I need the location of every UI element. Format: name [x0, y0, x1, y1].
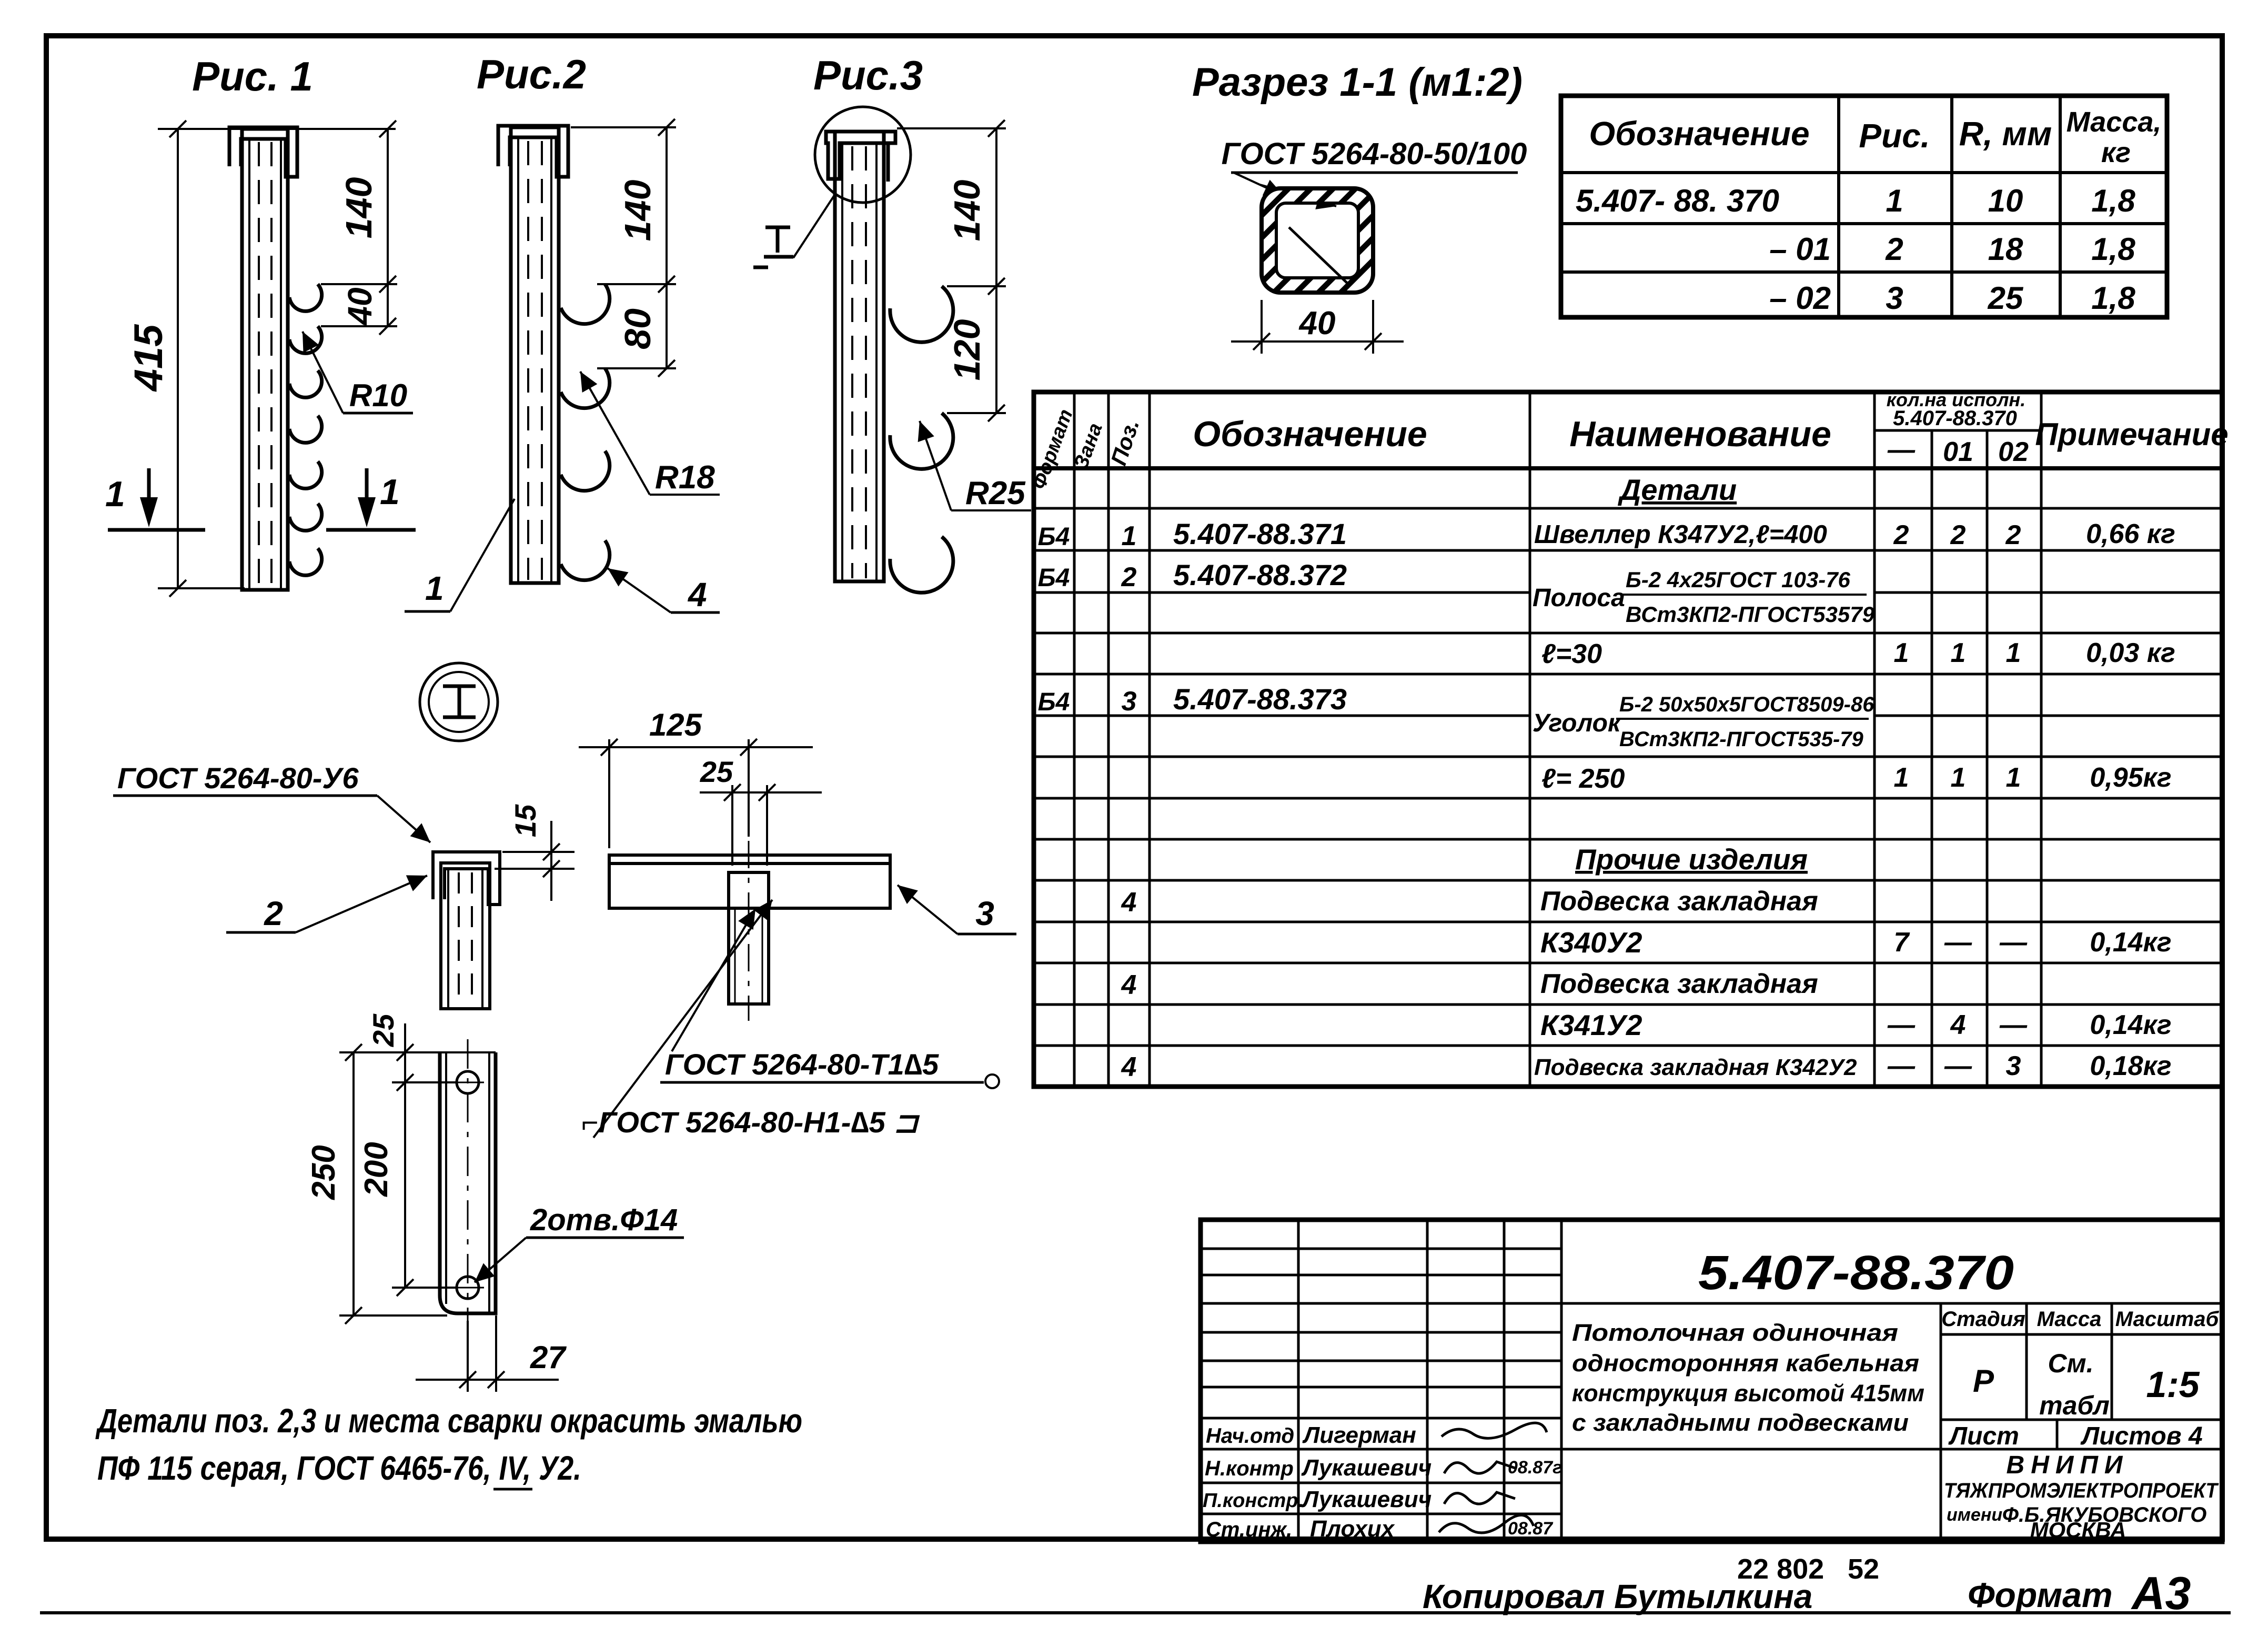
svg-text:Примечание: Примечание [2035, 417, 2228, 452]
svg-text:2: 2 [1893, 520, 1909, 550]
svg-text:Обозначение: Обозначение [1589, 115, 1809, 153]
svg-text:5.407-88.372: 5.407-88.372 [1173, 558, 1347, 591]
svg-text:Потолочная одиночная: Потолочная одиночная [1572, 1319, 1898, 1346]
svg-text:Лукашевич: Лукашевич [1301, 1487, 1432, 1512]
svg-text:Прочие изделия: Прочие изделия [1575, 843, 1808, 876]
svg-text:1: 1 [1886, 183, 1903, 218]
svg-text:Р: Р [1973, 1363, 1994, 1399]
svg-text:01: 01 [1943, 437, 1973, 467]
svg-text:ВНИПИ: ВНИПИ [2007, 1451, 2129, 1479]
svg-text:Масса: Масса [2037, 1308, 2102, 1331]
svg-text:Обозначение: Обозначение [1193, 414, 1427, 454]
svg-text:2: 2 [2005, 520, 2021, 550]
svg-text:27: 27 [530, 1340, 567, 1375]
svg-text:1: 1 [1951, 762, 1966, 793]
svg-text:Б4: Б4 [1038, 688, 1070, 716]
svg-text:Масса,: Масса, [2067, 106, 2162, 138]
svg-text:ГОСТ 5264-80-50/100: ГОСТ 5264-80-50/100 [1222, 137, 1527, 171]
svg-text:Рис. 1: Рис. 1 [192, 53, 313, 99]
svg-text:1,8: 1,8 [2091, 232, 2135, 267]
svg-text:R18: R18 [655, 459, 715, 496]
svg-text:Стадия: Стадия [1941, 1308, 2025, 1331]
svg-text:3: 3 [2006, 1051, 2021, 1081]
svg-text:1:5: 1:5 [2146, 1364, 2200, 1405]
svg-text:Рис.: Рис. [1859, 117, 1930, 155]
svg-text:Ст.инж.: Ст.инж. [1206, 1518, 1292, 1541]
svg-text:415: 415 [126, 324, 171, 393]
svg-text:Н.контр: Н.контр [1205, 1457, 1294, 1480]
svg-text:1: 1 [425, 569, 444, 607]
svg-text:1: 1 [380, 472, 400, 512]
svg-text:—: — [1944, 1051, 1972, 1081]
svg-text:3: 3 [1122, 686, 1137, 717]
svg-text:40: 40 [1298, 305, 1336, 342]
svg-text:односторонняя кабельная: односторонняя кабельная [1572, 1350, 1919, 1377]
svg-text:—: — [1887, 435, 1916, 465]
svg-text:Рис.2: Рис.2 [477, 51, 586, 97]
svg-text:—: — [1887, 1051, 1916, 1081]
svg-text:1: 1 [2006, 762, 2021, 793]
svg-text:0,66 кг: 0,66 кг [2086, 519, 2175, 549]
svg-text:ВСт3КП2-ПГОСТ53579: ВСт3КП2-ПГОСТ53579 [1626, 602, 1875, 627]
svg-text:К341У2: К341У2 [1540, 1009, 1642, 1041]
svg-text:120: 120 [946, 319, 987, 381]
svg-text:имени: имени [1947, 1505, 2002, 1525]
svg-text:R10: R10 [349, 378, 407, 413]
svg-text:Детали поз. 2,3 и места с: Детали поз. 2,3 и места сварки окрасить … [95, 1402, 802, 1440]
svg-text:125: 125 [649, 707, 703, 742]
svg-text:Лигерман: Лигерман [1302, 1422, 1416, 1448]
svg-text:1: 1 [1894, 638, 1909, 668]
svg-text:МОСКВА: МОСКВА [2030, 1518, 2126, 1542]
svg-text:200: 200 [358, 1142, 395, 1197]
svg-text:1: 1 [1894, 762, 1909, 793]
svg-text:См.: См. [2048, 1349, 2094, 1378]
svg-text:Б4: Б4 [1038, 564, 1070, 592]
svg-text:2: 2 [1950, 520, 1966, 550]
svg-text:табл: табл [2039, 1391, 2110, 1420]
svg-text:1: 1 [1122, 521, 1137, 551]
svg-text:4: 4 [1950, 1010, 1966, 1040]
svg-text:Поз.: Поз. [1106, 416, 1144, 468]
svg-text:1: 1 [2006, 638, 2021, 668]
svg-text:4: 4 [687, 576, 707, 614]
svg-text:Лист: Лист [1948, 1422, 2019, 1450]
svg-text:1,8: 1,8 [2091, 183, 2135, 218]
svg-text:2отв.Ф14: 2отв.Ф14 [530, 1203, 678, 1237]
svg-text:3: 3 [975, 895, 994, 932]
svg-text:Нач.отд: Нач.отд [1206, 1424, 1294, 1448]
svg-text:5.407- 88. 370: 5.407- 88. 370 [1576, 183, 1779, 218]
svg-text:08.87: 08.87 [1508, 1519, 1554, 1539]
svg-text:К340У2: К340У2 [1540, 926, 1642, 959]
svg-text:52: 52 [1848, 1553, 1879, 1585]
svg-text:А3: А3 [2131, 1567, 2191, 1619]
svg-text:Плохих: Плохих [1310, 1516, 1395, 1542]
svg-text:Подвеска закладная: Подвеска закладная [1540, 886, 1818, 917]
svg-text:18: 18 [1988, 232, 2023, 267]
svg-text:—: — [1999, 927, 2028, 958]
svg-text:Рис.3: Рис.3 [813, 52, 923, 98]
svg-text:Разрез 1-1 (м1:2): Разрез 1-1 (м1:2) [1192, 60, 1523, 105]
svg-text:0,14кг: 0,14кг [2090, 927, 2171, 958]
svg-text:40: 40 [341, 287, 379, 326]
svg-text:80: 80 [617, 308, 658, 349]
svg-text:5.407-88.370: 5.407-88.370 [1893, 407, 2017, 430]
svg-text:02: 02 [1998, 437, 2029, 467]
svg-text:Уголок: Уголок [1533, 709, 1622, 737]
svg-text:—: — [1944, 927, 1972, 958]
svg-text:—: — [1887, 1010, 1916, 1040]
svg-text:Формат: Формат [1968, 1575, 2113, 1614]
svg-text:15: 15 [509, 804, 542, 837]
svg-text:140: 140 [338, 177, 379, 239]
svg-text:0,03 кг: 0,03 кг [2086, 638, 2175, 668]
svg-text:4: 4 [1121, 970, 1137, 1000]
svg-text:5.407-88.373: 5.407-88.373 [1173, 682, 1347, 716]
svg-text:1: 1 [1951, 638, 1966, 668]
svg-text:140: 140 [946, 180, 987, 242]
svg-text:с закладными подвесками: с закладными подвесками [1572, 1409, 1909, 1436]
svg-text:Подвеска закладная К342У2: Подвеска закладная К342У2 [1534, 1055, 1857, 1080]
svg-text:ℓ= 250: ℓ= 250 [1541, 764, 1625, 794]
svg-text:ПФ 115 серая, ГОСТ 6465-76,: ПФ 115 серая, ГОСТ 6465-76, IV, У2. [97, 1449, 581, 1487]
svg-text:Лукашевич: Лукашевич [1301, 1455, 1432, 1481]
svg-text:25: 25 [1988, 280, 2024, 316]
svg-text:2: 2 [1885, 232, 1903, 267]
svg-text:10: 10 [1988, 183, 2023, 218]
svg-text:25: 25 [367, 1013, 400, 1047]
svg-text:конструкция высотой 415мм: конструкция высотой 415мм [1572, 1380, 1924, 1407]
svg-text:2: 2 [1121, 562, 1137, 592]
svg-text:3: 3 [1886, 280, 1903, 316]
svg-text:ℓ=30: ℓ=30 [1541, 639, 1602, 669]
svg-text:– 02: – 02 [1769, 280, 1831, 316]
svg-text:4: 4 [1121, 887, 1137, 918]
svg-text:Полоса: Полоса [1533, 584, 1625, 612]
svg-text:П.констр.: П.констр. [1203, 1490, 1304, 1512]
svg-text:Б-2 50х50х5ГОСТ8509-86: Б-2 50х50х5ГОСТ8509-86 [1619, 693, 1874, 716]
svg-text:140: 140 [617, 180, 658, 242]
svg-text:Листов 4: Листов 4 [2080, 1422, 2202, 1450]
svg-text:0,14кг: 0,14кг [2090, 1010, 2171, 1040]
svg-text:Наименование: Наименование [1569, 414, 1831, 454]
svg-text:– 01: – 01 [1769, 232, 1831, 267]
svg-text:5.407-88.371: 5.407-88.371 [1173, 517, 1347, 550]
svg-text:250: 250 [306, 1145, 342, 1200]
svg-text:08.87г: 08.87г [1508, 1458, 1562, 1478]
svg-text:2: 2 [264, 895, 283, 932]
svg-text:Детали: Детали [1618, 473, 1737, 506]
svg-text:1: 1 [105, 474, 125, 514]
svg-text:Б-2 4х25ГОСТ 103-76: Б-2 4х25ГОСТ 103-76 [1626, 567, 1851, 592]
svg-text:Подвеска закладная: Подвеска закладная [1540, 969, 1818, 999]
svg-text:ВСт3КП2-ПГОСТ535-79: ВСт3КП2-ПГОСТ535-79 [1619, 728, 1864, 751]
svg-text:Швеллер К347У2,ℓ=400: Швеллер К347У2,ℓ=400 [1534, 520, 1827, 549]
svg-text:7: 7 [1894, 927, 1910, 958]
svg-text:R25: R25 [965, 475, 1026, 511]
svg-text:1,8: 1,8 [2091, 280, 2135, 316]
svg-text:0,18кг: 0,18кг [2090, 1051, 2171, 1081]
svg-text:25: 25 [700, 755, 733, 788]
svg-text:R, мм: R, мм [1959, 115, 2052, 153]
svg-text:ГОСТ 5264-80-Т1∆5: ГОСТ 5264-80-Т1∆5 [665, 1048, 939, 1081]
svg-text:5.407-88.370: 5.407-88.370 [1698, 1246, 2014, 1300]
svg-text:кг: кг [2101, 137, 2131, 168]
svg-text:⌐ГОСТ 5264-80-Н1-∆5 ⊐: ⌐ГОСТ 5264-80-Н1-∆5 ⊐ [581, 1106, 920, 1139]
svg-text:Б4: Б4 [1038, 523, 1070, 551]
svg-text:4: 4 [1121, 1052, 1137, 1082]
svg-text:—: — [1999, 1010, 2028, 1040]
svg-text:ТЯЖПРОМЭЛЕКТРОПРОЕКТ: ТЯЖПРОМЭЛЕКТРОПРОЕКТ [1944, 1479, 2219, 1502]
svg-text:0,95кг: 0,95кг [2090, 762, 2171, 793]
svg-text:ГОСТ 5264-80-У6: ГОСТ 5264-80-У6 [117, 761, 359, 795]
svg-text:Масштаб: Масштаб [2115, 1308, 2220, 1331]
svg-text:Копировал Бутылкина: Копировал Бутылкина [1423, 1578, 1812, 1615]
